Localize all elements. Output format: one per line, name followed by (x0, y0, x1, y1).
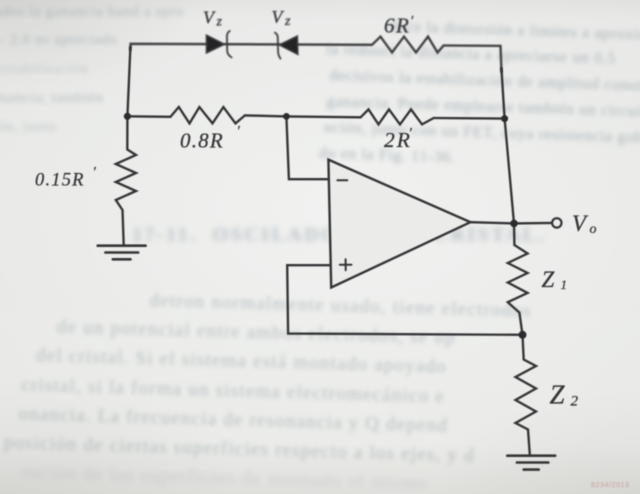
svg-text:0.8R: 0.8R (180, 129, 224, 153)
svg-text:V: V (272, 7, 285, 27)
svg-text:0.15R: 0.15R (35, 171, 85, 191)
svg-text:o: o (590, 222, 597, 237)
svg-text:Z: Z (550, 380, 566, 410)
svg-text:′: ′ (409, 126, 413, 142)
svg-text:1: 1 (561, 277, 568, 292)
svg-text:V: V (572, 211, 589, 236)
svg-text:Z: Z (542, 267, 555, 292)
svg-text:V: V (203, 8, 216, 28)
svg-text:′: ′ (93, 165, 97, 181)
svg-text:′: ′ (237, 124, 241, 140)
svg-text:2: 2 (571, 394, 579, 410)
svg-text:z: z (216, 15, 223, 30)
svg-text:6R: 6R (384, 14, 410, 38)
svg-text:′: ′ (410, 14, 414, 30)
svg-text:z: z (284, 14, 291, 29)
